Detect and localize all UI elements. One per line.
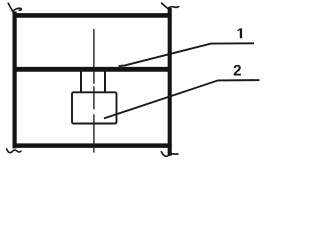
frame bottom edge xyxy=(13,143,172,148)
frame left edge xyxy=(13,12,17,149)
label 1 xyxy=(238,28,242,38)
leader line 1 (diagonal + horizontal) xyxy=(119,43,254,66)
break mark top-left xyxy=(8,3,21,11)
frame right edge xyxy=(168,8,172,156)
body rectangle (item 2) xyxy=(72,92,117,123)
partition line (divider) xyxy=(13,67,171,72)
break mark bottom-left xyxy=(7,149,21,153)
break mark bottom-right xyxy=(161,152,177,157)
label 2 xyxy=(234,65,241,76)
frame top edge xyxy=(13,13,172,18)
boss / stem left line xyxy=(80,71,82,92)
boss / stem right line xyxy=(104,71,106,92)
leader line 2 (diagonal + horizontal) xyxy=(104,80,260,118)
break mark top-right xyxy=(162,3,179,8)
centerline (vertical axis, dash-dot) xyxy=(93,29,95,153)
